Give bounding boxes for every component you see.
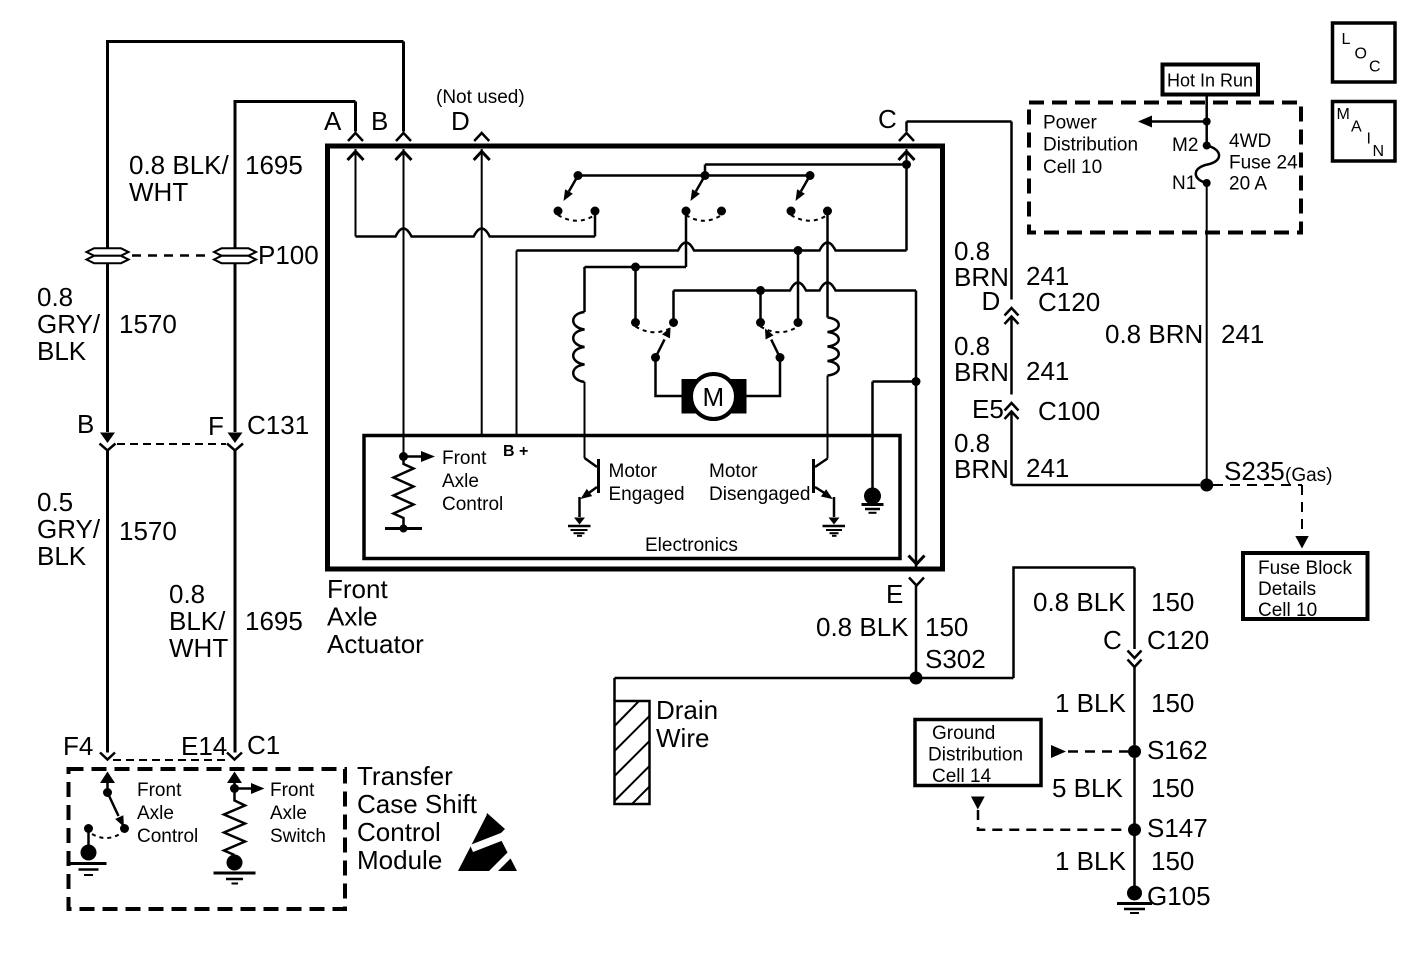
connector C131 dashed link (117, 443, 226, 445)
electronics box (364, 436, 900, 559)
pin C entry arrow (899, 152, 915, 161)
svg-text:BLK: BLK (37, 336, 87, 366)
label MAIN (1337, 106, 1385, 160)
svg-text:Axle: Axle (270, 803, 307, 824)
svg-text:241: 241 (1221, 319, 1264, 349)
wire BRN lower (1010, 412, 1013, 486)
svg-text:0.8: 0.8 (169, 579, 205, 609)
fuse 24 (1196, 142, 1219, 188)
svg-text:Switch: Switch (270, 826, 326, 847)
svg-text:C120: C120 (1147, 625, 1209, 655)
ground distribution box (915, 720, 1041, 786)
wire vertical down to connector B (402, 42, 405, 132)
dashed link P100 (132, 254, 210, 257)
node feed junction (1203, 118, 1211, 126)
coil right winding (828, 318, 839, 376)
svg-text:E14: E14 (181, 731, 227, 761)
node switch2 pivot (701, 171, 710, 180)
svg-text:150: 150 (1151, 773, 1194, 803)
switch travel arc (92, 834, 120, 838)
svg-text:Distribution: Distribution (1043, 135, 1138, 156)
svg-text:Hot In Run: Hot In Run (1167, 71, 1253, 91)
svg-text:D: D (982, 286, 1001, 316)
svg-text:BRN: BRN (954, 454, 1009, 484)
connector F4 caret (100, 753, 115, 760)
wire S302 horizontal (615, 677, 1014, 680)
switch1 travel arc (558, 215, 595, 221)
node lower-right switch left contact (756, 318, 765, 327)
svg-text:1695: 1695 (245, 606, 303, 636)
lower-left travel arc (636, 327, 674, 333)
svg-text:Control: Control (442, 494, 503, 515)
wire BRN middle (1010, 317, 1013, 395)
wire E net horizontal with hops (674, 283, 917, 291)
ground module right (227, 855, 243, 871)
connector E caret (909, 578, 924, 586)
connector D caret (474, 133, 489, 141)
svg-text:P100: P100 (258, 240, 319, 270)
svg-text:150: 150 (1151, 846, 1194, 876)
power distribution box (1029, 103, 1301, 233)
svg-text:(Not used): (Not used) (436, 87, 525, 108)
wire C down to B+ feed (905, 165, 908, 251)
node lower-left pivot (651, 353, 660, 362)
svg-text:Case Shift: Case Shift (357, 789, 478, 819)
node ground contact (84, 824, 93, 833)
svg-text:0.5: 0.5 (37, 487, 73, 517)
svg-text:O: O (1355, 46, 1367, 63)
wire 0.8 BLK/WHT 1695 lower (234, 451, 237, 753)
pin A entry arrow (348, 152, 364, 161)
hot in run box (1163, 65, 1259, 95)
wire left vertical 0.8 BLK/WHT to P100 (106, 40, 109, 248)
wire BRN to S235 (1012, 484, 1201, 487)
loc box (1333, 23, 1396, 82)
svg-text:GRY/: GRY/ (37, 309, 101, 339)
svg-text:B: B (371, 106, 388, 136)
svg-text:1 BLK: 1 BLK (1055, 846, 1126, 876)
pin E exit arrow (909, 556, 925, 565)
node switch3 pivot (806, 171, 815, 180)
fuse block details box (1243, 553, 1368, 619)
wire 1695 P100 to F (234, 264, 237, 433)
wire vertical 1695 to P100 (234, 100, 237, 248)
node lower-right switch right contact (794, 318, 803, 327)
motor M1 (682, 374, 747, 419)
svg-text:S162: S162 (1147, 735, 1208, 765)
ESD symbol (458, 813, 517, 878)
svg-text:S147: S147 (1147, 813, 1208, 843)
svg-text:S235: S235 (1224, 456, 1285, 486)
node S302 (910, 672, 923, 685)
connector C100 chevrons (1005, 403, 1019, 419)
wire motor left lead (656, 358, 683, 397)
node switch3 right contact (823, 207, 832, 216)
node switch2 right contact (717, 207, 726, 216)
transfer case shift control module box (69, 769, 346, 909)
resistor front axle switch (224, 789, 245, 856)
node front axle control contact (120, 824, 129, 833)
wire ground branch (873, 382, 917, 489)
svg-text:0.8: 0.8 (37, 282, 73, 312)
svg-text:0.8 BLK/: 0.8 BLK/ (129, 150, 230, 180)
wire to left coil (583, 267, 586, 312)
wire top horizontal B-feed (106, 40, 404, 43)
dashed wire to S147 (978, 810, 1128, 830)
grommet P100 right (214, 248, 256, 263)
switch3 arm (801, 176, 810, 192)
node switch2 left contact (682, 207, 691, 216)
wire 0.5 GRY/BLK 1570 (106, 451, 109, 753)
wire C entry from right (907, 122, 1012, 132)
connector C131 pin F arrow (228, 433, 243, 444)
wire switch2 contact down (685, 211, 688, 267)
svg-text:Transfer: Transfer (357, 761, 453, 791)
coil left winding (573, 312, 584, 382)
svg-text:241: 241 (1026, 453, 1069, 483)
switch1 arm (569, 176, 578, 192)
svg-text:N1: N1 (1172, 173, 1196, 194)
wire 0.8 BRN vertical (1010, 122, 1013, 300)
wire 1570 P100 to B (106, 264, 109, 433)
svg-text:B: B (77, 409, 94, 439)
ground case (862, 488, 884, 513)
svg-text:0.8 BLK: 0.8 BLK (1033, 587, 1126, 617)
svg-text:E: E (886, 579, 903, 609)
svg-text:241: 241 (1026, 356, 1069, 386)
svg-text:B +: B + (503, 443, 528, 460)
wire coil-left net horizontal (585, 266, 687, 269)
node switch1 left contact (554, 207, 563, 216)
svg-text:1695: 1695 (245, 150, 303, 180)
node front axle control pivot (103, 788, 112, 797)
svg-text:150: 150 (1151, 587, 1194, 617)
node switch3 left contact (787, 207, 796, 216)
svg-text:5 BLK: 5 BLK (1052, 773, 1123, 803)
label LOC (1342, 31, 1381, 76)
node feed to motor-disengage contact (794, 246, 803, 255)
ground G105 (1117, 886, 1152, 914)
svg-text:Axle: Axle (137, 803, 174, 824)
svg-text:GRY/: GRY/ (37, 514, 101, 544)
svg-text:G105: G105 (1147, 881, 1211, 911)
svg-text:Control: Control (357, 817, 441, 847)
svg-text:WHT: WHT (169, 633, 228, 663)
ground Q2 (823, 518, 846, 536)
main box (1333, 102, 1396, 162)
connector C131 pin B arrow (100, 433, 115, 444)
svg-text:Axle: Axle (442, 471, 479, 492)
svg-text:Cell 10: Cell 10 (1258, 600, 1317, 621)
switch2 arm (696, 176, 705, 192)
switch3 travel arc (791, 215, 828, 221)
svg-text:Cell 14: Cell 14 (932, 766, 992, 787)
wire fuse to S235 (1206, 183, 1208, 485)
wire horizontal A-feed 1695 (235, 100, 356, 103)
pin D entry arrow (474, 152, 490, 161)
drain wire shield (615, 701, 650, 804)
wire C120 to S162 (1133, 667, 1136, 745)
front axle actuator box (328, 146, 943, 569)
pin E14 entry arrow (227, 772, 242, 784)
svg-text:Engaged: Engaged (609, 484, 685, 505)
svg-text:Axle: Axle (327, 602, 378, 632)
connector C120 chevrons (BRN) (1005, 308, 1019, 324)
arrow into fuse block (1295, 536, 1308, 549)
svg-text:C131: C131 (247, 410, 309, 440)
svg-text:Details: Details (1258, 579, 1316, 600)
ground module left (87, 829, 90, 846)
node switch1 pivot (574, 171, 583, 180)
svg-text:Electronics: Electronics (645, 535, 738, 556)
switch front axle control arm (108, 793, 119, 817)
svg-text:4WD: 4WD (1229, 131, 1271, 152)
svg-text:Fuse Block: Fuse Block (1258, 558, 1352, 579)
svg-text:BRN: BRN (954, 357, 1009, 387)
svg-text:1 BLK: 1 BLK (1055, 688, 1126, 718)
svg-text:BLK/: BLK/ (169, 606, 226, 636)
svg-text:Cell 10: Cell 10 (1043, 157, 1102, 178)
connector C caret (899, 133, 914, 141)
connector B caret (396, 133, 411, 141)
svg-text:20 A: 20 A (1229, 174, 1267, 195)
svg-text:Motor: Motor (609, 461, 658, 482)
wire S302 up right (1014, 568, 1135, 679)
svg-text:E5: E5 (972, 394, 1004, 424)
svg-text:BLK: BLK (37, 541, 87, 571)
svg-text:M2: M2 (1172, 135, 1198, 156)
svg-text:C: C (1369, 59, 1381, 76)
svg-text:Wire: Wire (656, 723, 709, 753)
svg-text:150: 150 (1151, 688, 1194, 718)
node S147 (1128, 823, 1141, 836)
svg-text:Front: Front (137, 780, 182, 801)
wire left coil to Q1 (584, 382, 586, 458)
node branch to lower-right contact (756, 286, 765, 295)
wire S147 to G105 (1133, 836, 1136, 886)
svg-text:C1: C1 (247, 730, 280, 760)
wire feed to lower-right contact (797, 251, 800, 323)
wire vertical down to connector A (354, 102, 357, 132)
pin F4 entry arrow (100, 772, 115, 784)
svg-text:A: A (324, 106, 342, 136)
svg-text:N: N (1373, 143, 1385, 160)
lower-left switch arm (656, 339, 665, 357)
svg-text:Ground: Ground (932, 723, 995, 744)
wire B+ feed horizontal with hops (517, 243, 907, 251)
connector C120 chevrons (1128, 651, 1142, 668)
svg-text:C: C (1103, 625, 1122, 655)
svg-text:D: D (451, 106, 470, 136)
wire E net vertical (915, 291, 918, 567)
svg-text:C120: C120 (1038, 287, 1100, 317)
svg-text:Drain: Drain (656, 695, 718, 725)
arrow to ground distribution (1051, 745, 1066, 758)
node lower-right pivot (776, 353, 785, 362)
svg-text:Distribution: Distribution (928, 745, 1023, 766)
svg-text:C100: C100 (1038, 396, 1100, 426)
svg-text:F: F (208, 411, 224, 441)
svg-text:0.8 BRN: 0.8 BRN (1105, 319, 1203, 349)
wire lower-right left contact up (759, 291, 762, 323)
wire S162 to S147 (1133, 758, 1136, 824)
wire branch to lower-left contact (634, 267, 637, 323)
svg-text:Module: Module (357, 845, 442, 875)
svg-text:Motor: Motor (709, 461, 758, 482)
node lower-left switch right contact (669, 318, 678, 327)
svg-text:150: 150 (925, 612, 968, 642)
connector dashed link F4-E14 (113, 759, 227, 761)
node lower-left switch left contact (631, 318, 640, 327)
wire lower-left right contact up (672, 291, 675, 323)
ground bar front axle control (385, 527, 422, 530)
switch2 travel arc (686, 215, 722, 221)
node ground branch (912, 377, 921, 386)
node switch1 right contact (591, 207, 600, 216)
wire hot in run down (1205, 95, 1208, 146)
grommet P100 left (87, 248, 129, 263)
arrow front axle control signal (404, 455, 422, 458)
arrow feed to power distribution (1152, 120, 1207, 123)
svg-text:Front: Front (327, 574, 388, 604)
wire C to pivots (705, 165, 907, 176)
wire E to S302 (915, 586, 918, 672)
svg-text:Control: Control (137, 826, 198, 847)
pin B entry arrow (396, 152, 412, 161)
svg-text:1570: 1570 (119, 516, 177, 546)
node front axle control input (399, 452, 408, 461)
svg-text:M: M (1337, 106, 1350, 123)
node S235 (1200, 479, 1213, 492)
svg-text:L: L (1342, 31, 1351, 48)
svg-text:(Gas): (Gas) (1285, 465, 1333, 486)
svg-text:Fuse 24: Fuse 24 (1229, 153, 1298, 174)
resistor front axle control (394, 457, 414, 528)
wire A to switch1 contact (594, 211, 597, 237)
wire switch3 contact down to right coil (826, 211, 829, 318)
node branch to lower-left contact (631, 263, 640, 272)
wire A net horizontal with hops (356, 229, 596, 237)
transistor Q2 motor disengaged (814, 459, 835, 518)
wire B+ vertical (516, 251, 518, 435)
ground Q1 (568, 518, 591, 536)
lower-right travel arc (761, 327, 799, 333)
svg-text:Front: Front (442, 448, 487, 469)
wire right coil to Q2 (827, 376, 829, 459)
dashed wire S235 to fuse block (1213, 485, 1302, 533)
svg-text:1570: 1570 (119, 309, 177, 339)
svg-text:Front: Front (270, 780, 315, 801)
wire to drain (613, 678, 616, 701)
svg-text:F4: F4 (63, 731, 93, 761)
arrow down from ground distribution (971, 797, 985, 810)
wire pivot bus (578, 174, 810, 177)
svg-text:I: I (1367, 131, 1371, 148)
svg-text:Power: Power (1043, 113, 1098, 134)
svg-text:WHT: WHT (129, 177, 188, 207)
svg-text:Actuator: Actuator (327, 629, 424, 659)
svg-text:S302: S302 (925, 644, 986, 674)
svg-text:A: A (1351, 119, 1362, 136)
svg-text:M: M (703, 382, 725, 412)
node front axle switch (230, 784, 239, 793)
connector E14 caret (227, 753, 242, 760)
svg-text:Disengaged: Disengaged (709, 484, 810, 505)
svg-text:0.8 BLK: 0.8 BLK (816, 612, 909, 642)
connector A caret (348, 133, 363, 141)
node S162 (1128, 745, 1141, 758)
arrow front axle switch signal (235, 787, 252, 790)
wire motor right lead (746, 358, 780, 397)
svg-text:C: C (878, 104, 897, 134)
node C junction (902, 160, 911, 169)
transistor Q1 motor engaged (580, 458, 599, 517)
lower-right switch arm (771, 340, 780, 358)
